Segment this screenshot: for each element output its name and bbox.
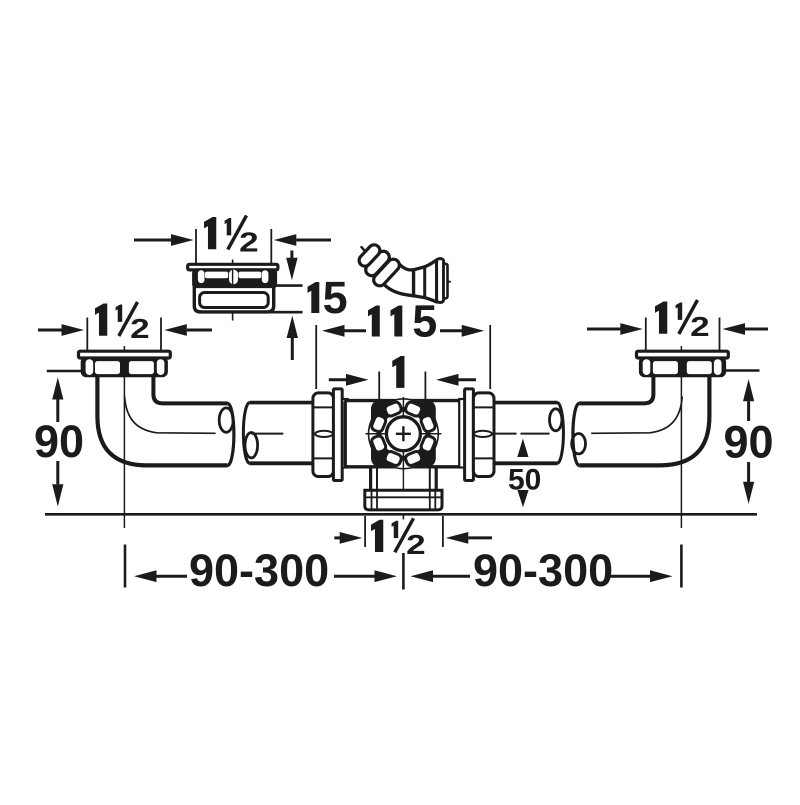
- corrugated hose cuff band 1: [357, 242, 382, 268]
- dimension 115 extension line left: [315, 325, 317, 389]
- dimension 115 arrow left: [322, 325, 366, 337]
- dimension 90 right up arrow: [743, 379, 754, 421]
- top coupling nut slot right: [262, 270, 269, 283]
- right flange dim arrow left: [587, 323, 643, 335]
- dimension 90 right down arrow: [743, 462, 754, 504]
- top coupling extension line right: [270, 229, 272, 265]
- top coupling nut slot left: [198, 270, 205, 283]
- dimension 115 label: [368, 306, 380, 337]
- corrugated hose right flare section: [414, 260, 437, 302]
- right flange nut: [640, 358, 725, 376]
- dimension 90-300 left span left arrow: [134, 570, 187, 582]
- right flange nut face right: [687, 361, 712, 374]
- corrugated hose flare rib: [423, 267, 426, 298]
- corrugated hose rear disc: [444, 264, 448, 299]
- left tailpipe opening ellipse: [245, 433, 258, 458]
- right flange dim label 1-1/2: [655, 300, 710, 342]
- left flange extension line right: [160, 318, 162, 352]
- dimension 90-300 left tick: [124, 545, 127, 588]
- dimension 115 arrow right: [440, 325, 484, 337]
- left tailpipe bottom edge: [249, 461, 313, 465]
- right elbow outer edge: [579, 376, 709, 466]
- tee right nut lens: [474, 431, 492, 437]
- left flange nut tab right: [157, 359, 165, 375]
- tee right band: [459, 399, 464, 468]
- dimension 90 left down arrow: [52, 461, 63, 507]
- tee right nut flange: [465, 389, 474, 481]
- tee knob cross: [396, 426, 411, 441]
- dimension 1 extension line right: [424, 372, 426, 400]
- bottom dim extension line right: [442, 516, 444, 547]
- left elbow inner bend arc: [125, 397, 216, 434]
- right tailpipe opening ellipse: [550, 409, 562, 431]
- svg-text:90: 90: [34, 416, 84, 467]
- tee right nut inner lines: [474, 407, 494, 458]
- dimension 15 up arrow: [287, 316, 298, 360]
- left tailpipe top edge: [249, 401, 313, 405]
- bottom dim 1-1/2 center stub: [402, 515, 404, 519]
- dimension 90-300 left span right arrow: [334, 570, 397, 582]
- dimension 1 extension line left: [378, 372, 380, 400]
- tee knob rear lobe crescent right: [428, 420, 438, 447]
- tee bottom nut: [365, 490, 442, 510]
- svg-text:5: 5: [323, 272, 348, 323]
- left flange nut tab left: [86, 359, 94, 375]
- right elbow centerline: [680, 346, 682, 528]
- dimension 90-300 center tick: [402, 553, 405, 590]
- corrugated hose cuff band 2: [363, 249, 392, 278]
- left flange dim arrow left: [38, 324, 84, 336]
- tee left band: [342, 399, 347, 468]
- left tailpipe end cap: [243, 403, 249, 464]
- bottom dim label 1-1/2: [371, 518, 426, 560]
- tee knob rear lobe crescent bottom: [390, 459, 417, 469]
- top coupling lower ring inner face: [200, 293, 269, 308]
- corrugated hose bend tube: [376, 261, 414, 296]
- baseline: [45, 513, 757, 516]
- centerline dash right pipe: [521, 433, 550, 435]
- top coupling centerline over slot: [232, 270, 234, 285]
- dimension 15 reference line lower: [269, 311, 303, 314]
- top coupling centerline: [232, 260, 234, 321]
- left flange nut: [82, 358, 167, 376]
- right tailpipe top edge: [494, 401, 558, 405]
- dimension 90 right reference line: [724, 369, 759, 371]
- dimension 15 reference line upper: [271, 284, 302, 287]
- tee body tube: [345, 401, 461, 467]
- dimension top 1-1/2 arrow right: [274, 234, 331, 246]
- left flange nut face right: [129, 361, 154, 374]
- centerline dash left pipe: [251, 433, 283, 435]
- right tailpipe bottom edge: [494, 461, 558, 465]
- tee center boss: [371, 400, 436, 467]
- svg-text:5: 5: [412, 296, 437, 347]
- dimension 15 label: [308, 282, 320, 313]
- corrugated hose stub line: [448, 281, 451, 283]
- bottom dim extension line left: [364, 516, 366, 547]
- dimension 90 left up arrow: [52, 377, 63, 422]
- svg-text:90-300: 90-300: [473, 545, 613, 596]
- dimension 50 up arrow: [517, 439, 528, 458]
- left elbow end cap: [228, 403, 234, 465]
- right flange dim arrow right: [723, 323, 769, 335]
- tee knob base ring: [380, 410, 427, 457]
- top coupling extension line left: [195, 229, 197, 265]
- corrugated hose tip: [361, 246, 366, 252]
- top coupling flange plate: [188, 264, 278, 270]
- dimension 115 extension line right: [489, 325, 491, 389]
- top coupling lower ring: [194, 286, 273, 312]
- right elbow opening ellipse: [572, 434, 586, 454]
- dimension 90 left reference line: [47, 370, 84, 372]
- tee left nut lens: [315, 431, 333, 437]
- bottom dim arrow left: [334, 532, 362, 544]
- tee outlet wall right outer: [435, 467, 438, 491]
- dimension 1 arrow right: [436, 374, 476, 386]
- left flange extension line left: [86, 318, 88, 352]
- left elbow centerline: [123, 346, 125, 528]
- left flange nut face left: [95, 361, 120, 374]
- right tailpipe end cap: [558, 403, 564, 464]
- tee bottom nut inner lines: [366, 491, 442, 510]
- tee knob inner circle: [386, 417, 420, 451]
- dimension 90-300 right span right arrow: [608, 570, 673, 582]
- tee knob rear lobe crescent left: [369, 420, 379, 447]
- centerline dash right nut: [489, 433, 517, 435]
- dimension top 1-1/2 label: [204, 216, 259, 258]
- dimension 90-300 right tick: [680, 545, 683, 588]
- right elbow end cap: [573, 403, 579, 465]
- right flange nut face left: [653, 361, 678, 374]
- left flange plate: [79, 351, 171, 358]
- top coupling nut slot center: [229, 270, 238, 285]
- corrugated hose cuff band 3: [371, 257, 402, 289]
- right flange nut tab right: [714, 359, 722, 375]
- top coupling nut: [194, 270, 276, 288]
- left flange dim label 1-1/2: [95, 302, 150, 344]
- right elbow inner bend arc: [591, 397, 682, 434]
- right flange plate: [637, 351, 729, 358]
- left elbow inner edge: [153, 376, 227, 404]
- tee right compression nut body: [473, 393, 494, 477]
- dimension 15 down arrow: [286, 251, 297, 281]
- left flange dim arrow right: [164, 324, 212, 336]
- corrugated hose end flange: [437, 259, 444, 303]
- tee knob rear lobe crescent top: [390, 399, 417, 409]
- tee outlet wall left outer: [369, 467, 372, 491]
- left elbow outer edge: [97, 376, 227, 466]
- tee left nut flange: [333, 389, 342, 481]
- dimension 50 down arrow: [517, 490, 528, 507]
- tee left nut inner lines: [314, 407, 334, 458]
- svg-text:90-300: 90-300: [189, 545, 329, 596]
- right elbow inner edge: [579, 376, 653, 404]
- dimension 90-300 right span left arrow: [411, 570, 471, 582]
- tee outlet wall left inner: [376, 467, 378, 491]
- dimension 1 arrow left: [329, 374, 369, 386]
- tee outlet centerline: [402, 473, 404, 510]
- tee outlet wall right inner: [429, 467, 431, 491]
- svg-text:90: 90: [724, 417, 774, 468]
- tee knob teeth: [404, 401, 423, 418]
- right flange extension line left: [645, 318, 647, 352]
- tee knob tick marks: [365, 397, 441, 473]
- right flange nut tab left: [643, 359, 651, 375]
- dimension top 1-1/2 arrow left: [134, 234, 194, 246]
- dimension 1 label: [392, 356, 404, 388]
- tee left compression nut body: [313, 393, 334, 477]
- right flange extension line right: [719, 318, 721, 352]
- bottom dim arrow right: [446, 532, 492, 544]
- left elbow opening ellipse: [219, 408, 233, 432]
